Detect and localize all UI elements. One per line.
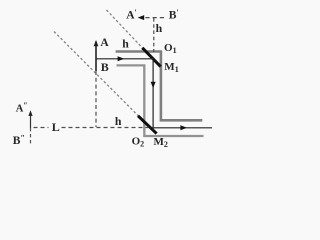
- object arrowhead (up): [94, 40, 99, 46]
- svg-text:h: h: [156, 21, 163, 35]
- dashed line L (backward extension of exit ray): [34, 127, 49, 129]
- image A'B' dashed arrow (points left): [141, 17, 164, 19]
- dashed line L continuation to mirror M2: [62, 127, 149, 129]
- mirror plane extension D1 (dashed diagonal to M1): [107, 10, 143, 48]
- svg-text:B: B: [101, 60, 109, 74]
- A'B' arrowhead: [138, 15, 145, 20]
- ray R2 down the shaft: [152, 59, 154, 131]
- ray R3 arrowhead: [180, 125, 187, 130]
- ray R2 arrowhead: [151, 82, 156, 89]
- object line dashed extension below B: [95, 71, 97, 127]
- svg-text:h: h: [122, 36, 129, 50]
- A''B'' arrowhead: [28, 110, 32, 116]
- vertical dashed h line under A'B': [153, 18, 155, 52]
- periscope tube inner wall (top-duct bottom wall, left wall, bottom wall): [117, 65, 204, 136]
- image A''B'' arrow (points up): [30, 113, 32, 129]
- ray R1 arrowhead: [118, 56, 125, 61]
- ray R1 from B to mirror M1: [97, 58, 154, 60]
- svg-text:L: L: [52, 120, 60, 134]
- mirror M2: [138, 116, 157, 134]
- ray R3 exit ray: [150, 127, 212, 129]
- mirror M1: [142, 48, 160, 67]
- periscope tube outer wall (top wall, right wall, lower-duct top wall): [116, 52, 203, 121]
- svg-text:A: A: [100, 37, 109, 49]
- mirror plane extension D2 (dashed diagonal to M2): [54, 32, 141, 119]
- object AB vertical arrow (solid): [95, 42, 97, 72]
- svg-text:h: h: [115, 114, 122, 128]
- A''B'' dashed lower part: [30, 128, 32, 144]
